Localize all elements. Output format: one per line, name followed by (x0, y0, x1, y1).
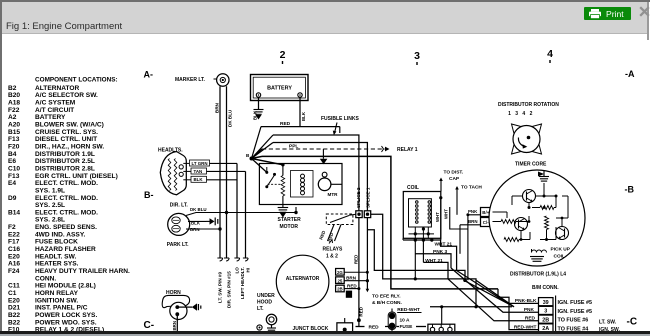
svg-text:ELECT. CTRL. MOD.: ELECT. CTRL. MOD. (35, 180, 98, 187)
svg-text:B2: B2 (8, 85, 17, 92)
svg-text:2B: 2B (542, 317, 549, 323)
svg-text:3: 3 (414, 50, 420, 62)
svg-text:PNK-BLK: PNK-BLK (515, 298, 537, 304)
svg-text:C10: C10 (8, 165, 20, 172)
svg-text:HEI MODULE (2.8L): HEI MODULE (2.8L) (35, 283, 96, 290)
svg-text:DISTRIBUTOR (1.9L) L4: DISTRIBUTOR (1.9L) L4 (510, 272, 566, 278)
svg-text:2B: 2B (337, 287, 343, 292)
svg-text:BLK: BLK (301, 111, 306, 121)
svg-text:F13: F13 (8, 173, 20, 180)
svg-text:HEAVY DUTY TRAILER HARN.: HEAVY DUTY TRAILER HARN. (35, 268, 130, 275)
svg-text:MTR: MTR (328, 192, 339, 197)
svg-text:4WD IND. ASSY.: 4WD IND. ASSY. (35, 231, 85, 238)
svg-text:A20: A20 (8, 121, 20, 128)
svg-text:TIMER CORE: TIMER CORE (515, 162, 547, 168)
svg-text:LEFT HEADLT.: LEFT HEADLT. (240, 267, 245, 299)
svg-text:-B: -B (625, 185, 635, 195)
svg-text:B/M CONN.: B/M CONN. (532, 285, 559, 291)
svg-text:10 A: 10 A (400, 318, 410, 324)
svg-text:B: B (246, 153, 250, 158)
svg-text:DK BLU: DK BLU (228, 109, 233, 127)
svg-text:B20: B20 (8, 92, 20, 99)
svg-text:D21: D21 (8, 305, 20, 312)
svg-text:C-: C- (144, 320, 155, 331)
svg-text:FUSIBLE LINKS: FUSIBLE LINKS (321, 116, 359, 122)
svg-text:BATTERY: BATTERY (267, 86, 292, 92)
svg-text:D9: D9 (8, 195, 17, 202)
svg-text:MOTOR: MOTOR (280, 224, 299, 230)
svg-text:CAP: CAP (449, 176, 460, 182)
svg-text:B22: B22 (8, 319, 20, 326)
svg-text:IGNITION SW.: IGNITION SW. (35, 297, 78, 304)
svg-text:C/-: C/- (483, 220, 489, 225)
svg-text:DIESEL CTRL. UNIT: DIESEL CTRL. UNIT (35, 136, 97, 143)
svg-text:E22: E22 (8, 231, 20, 238)
svg-text:B4: B4 (8, 151, 17, 158)
svg-text:IGN. FUSE #5: IGN. FUSE #5 (558, 309, 592, 315)
svg-text:DISTRIBUTOR ROTATION: DISTRIBUTOR ROTATION (498, 102, 559, 108)
svg-text:A/C SYSTEM: A/C SYSTEM (35, 100, 76, 107)
svg-text:2G: 2G (337, 270, 343, 275)
svg-text:HEADLT. SW.: HEADLT. SW. (35, 253, 76, 260)
svg-text:E6: E6 (8, 158, 16, 165)
svg-text:3: 3 (544, 309, 547, 315)
svg-text:LT. SW. PIN #9: LT. SW. PIN #9 (218, 271, 223, 303)
svg-text:& B/H CONN.: & B/H CONN. (372, 300, 402, 306)
svg-text:CONN.: CONN. (35, 275, 56, 282)
svg-text:1 3 4 2: 1 3 4 2 (508, 111, 534, 117)
svg-text:RED: RED (354, 255, 359, 264)
svg-text:FUSE: FUSE (400, 324, 414, 330)
svg-text:TO FUSE #6: TO FUSE #6 (558, 318, 589, 324)
svg-text:ELECT. CTRL. MOD.: ELECT. CTRL. MOD. (35, 209, 98, 216)
svg-text:B-: B- (144, 190, 154, 200)
svg-text:ENG. SPEED SENS.: ENG. SPEED SENS. (35, 224, 97, 231)
svg-text:PNK 3: PNK 3 (433, 249, 447, 255)
svg-text:A-: A- (144, 70, 154, 80)
svg-text:STARTER: STARTER (278, 217, 302, 223)
svg-text:RED-WHT: RED-WHT (397, 307, 420, 313)
svg-text:DISTRIBUTOR 2.5L: DISTRIBUTOR 2.5L (35, 158, 95, 165)
svg-text:SYS. 2.5L: SYS. 2.5L (35, 202, 65, 209)
svg-text:BRN: BRN (172, 321, 177, 331)
svg-text:WHT 21: WHT 21 (425, 258, 443, 264)
svg-text:DISTRIBUTOR 1.9L: DISTRIBUTOR 1.9L (35, 151, 95, 158)
svg-text:MARKER LT.: MARKER LT. (175, 77, 206, 83)
svg-text:PPL: PPL (289, 143, 298, 149)
svg-text:A/C SELECTOR SW.: A/C SELECTOR SW. (35, 92, 98, 99)
svg-text:C11: C11 (8, 283, 20, 290)
svg-text:A/T CIRCUIT: A/T CIRCUIT (35, 107, 74, 114)
svg-text:A18: A18 (8, 100, 20, 107)
svg-text:PNK: PNK (468, 209, 478, 214)
svg-text:A2: A2 (8, 114, 17, 121)
svg-text:TAN: TAN (194, 169, 203, 174)
svg-text:HORN RELAY: HORN RELAY (35, 290, 79, 297)
svg-text:RED: RED (318, 230, 326, 240)
svg-text:RED: RED (358, 306, 363, 316)
svg-text:FUSE BLOCK: FUSE BLOCK (35, 239, 78, 246)
svg-text:HEATER SYS.: HEATER SYS. (35, 261, 79, 268)
svg-text:POWER WDO. SYS.: POWER WDO. SYS. (35, 319, 97, 326)
svg-text:UNDER: UNDER (257, 293, 275, 299)
svg-text:F20: F20 (8, 143, 20, 150)
svg-text:COIL: COIL (554, 254, 566, 260)
svg-text:ALTERNATOR: ALTERNATOR (35, 85, 80, 92)
svg-text:SYS. 1.9L: SYS. 1.9L (35, 187, 65, 194)
svg-text:B15: B15 (8, 129, 20, 136)
svg-text:RED: RED (280, 121, 291, 127)
svg-text:-C: -C (627, 317, 638, 328)
svg-text:BRN: BRN (468, 219, 478, 224)
svg-text:LT.: LT. (257, 306, 264, 312)
svg-text:TO DIST.: TO DIST. (444, 170, 464, 176)
svg-text:BRN: BRN (214, 102, 219, 113)
svg-text:C1: C1 (8, 290, 17, 297)
svg-text:B22: B22 (8, 312, 20, 319)
svg-text:DIR. LT.: DIR. LT. (170, 203, 189, 209)
svg-text:BLK: BLK (191, 221, 201, 226)
svg-text:E20: E20 (8, 253, 20, 260)
svg-text:RED: RED (347, 283, 357, 288)
svg-text:WHT 21: WHT 21 (435, 241, 453, 247)
svg-text:LT GRN: LT GRN (192, 161, 208, 166)
svg-text:BRN: BRN (346, 276, 357, 281)
svg-text:DIR., HAZ., HORN SW.: DIR., HAZ., HORN SW. (35, 143, 104, 150)
svg-text:BRN: BRN (190, 227, 200, 232)
svg-text:IGN. FUSE #5: IGN. FUSE #5 (558, 300, 592, 306)
svg-text:39: 39 (543, 300, 549, 306)
svg-text:2: 2 (280, 49, 286, 61)
svg-text:SPLICE 1: SPLICE 1 (365, 187, 370, 208)
svg-text:HAZARD FLASHER: HAZARD FLASHER (35, 246, 96, 253)
svg-text:WHT: WHT (435, 212, 440, 222)
svg-text:-A: -A (625, 69, 635, 79)
svg-text:RELAY 1: RELAY 1 (397, 147, 418, 153)
svg-text:F17: F17 (8, 239, 20, 246)
svg-text:LT. SW.: LT. SW. (599, 320, 617, 326)
svg-text:RELAYS: RELAYS (323, 247, 343, 253)
svg-text:PARK LT.: PARK LT. (167, 242, 189, 248)
svg-text:HOOD: HOOD (257, 300, 272, 306)
svg-text:POWER LOCK SYS.: POWER LOCK SYS. (35, 312, 97, 319)
svg-text:COIL: COIL (407, 185, 419, 191)
svg-text:PICK UP: PICK UP (551, 247, 571, 253)
svg-text:E4: E4 (8, 180, 16, 187)
svg-text:DIR. SW. PIN #15: DIR. SW. PIN #15 (227, 271, 232, 308)
svg-text:C16: C16 (8, 246, 20, 253)
svg-text:HI: HI (246, 268, 251, 273)
svg-text:PNK: PNK (524, 307, 535, 313)
svg-text:SPLICE 2: SPLICE 2 (356, 187, 361, 208)
svg-text:4: 4 (547, 48, 553, 60)
svg-text:TO TACH: TO TACH (461, 185, 482, 191)
svg-text:RED: RED (369, 324, 380, 330)
svg-text:EGR CTRL. UNIT (DIESEL): EGR CTRL. UNIT (DIESEL) (35, 173, 118, 180)
svg-text:RED: RED (525, 316, 536, 322)
svg-text:ELECT. CTRL. MOD.: ELECT. CTRL. MOD. (35, 195, 98, 202)
svg-text:F24: F24 (8, 268, 20, 275)
svg-text:SYS. 2.8L: SYS. 2.8L (35, 217, 65, 224)
svg-text:BLOWER SW. (W/A/C): BLOWER SW. (W/A/C) (35, 121, 104, 128)
svg-text:CRUISE CTRL. SYS.: CRUISE CTRL. SYS. (35, 129, 98, 136)
svg-text:BLK: BLK (194, 177, 204, 182)
svg-text:E20: E20 (8, 297, 20, 304)
svg-text:INST. PANEL P/C: INST. PANEL P/C (35, 305, 88, 312)
svg-text:F13: F13 (8, 136, 20, 143)
svg-text:RED-WHT: RED-WHT (514, 324, 537, 330)
svg-text:F22: F22 (8, 107, 20, 114)
svg-text:1 & 2: 1 & 2 (326, 254, 338, 260)
svg-text:DK BLU: DK BLU (190, 207, 207, 212)
svg-text:BATTERY: BATTERY (35, 114, 66, 121)
svg-text:DISTRIBUTOR 2.8L: DISTRIBUTOR 2.8L (35, 165, 95, 172)
svg-text:25: 25 (337, 278, 342, 283)
svg-text:TO EFE RLY.: TO EFE RLY. (372, 294, 401, 300)
svg-text:COMPONENT LOCATIONS:: COMPONENT LOCATIONS: (35, 77, 118, 84)
svg-text:LO: LO (235, 267, 240, 274)
svg-text:ALTERNATOR: ALTERNATOR (286, 276, 320, 282)
svg-text:B14: B14 (8, 209, 20, 216)
svg-text:A16: A16 (8, 261, 20, 268)
svg-text:F2: F2 (8, 224, 16, 231)
svg-text:WHT: WHT (444, 209, 449, 219)
svg-text:RED: RED (326, 232, 334, 242)
